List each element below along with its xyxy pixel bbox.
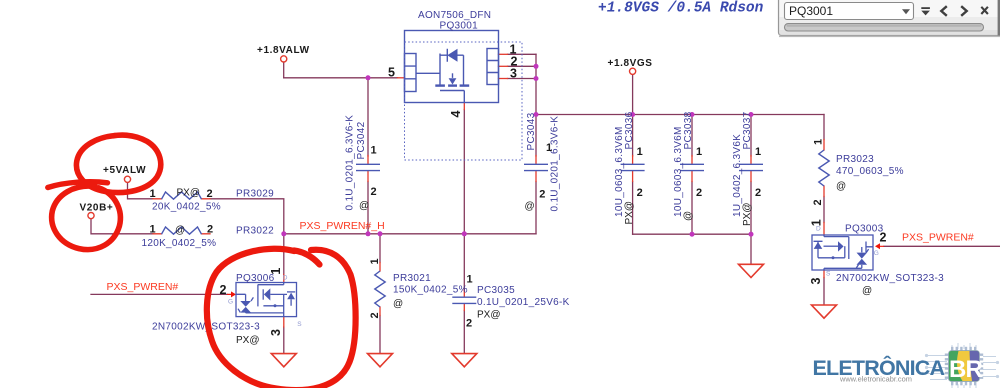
svg-text:10U_0603_6.3V6M: 10U_0603_6.3V6M (673, 126, 684, 217)
svg-text:2: 2 (696, 187, 702, 199)
wire pin2 horizontal (508, 65, 537, 67)
PR3022 pin stubs (153, 233, 210, 235)
ground PC3035 (452, 354, 477, 367)
svg-text:2: 2 (207, 188, 213, 200)
svg-text:2: 2 (812, 199, 824, 205)
PR3021 pin stubs (379, 263, 381, 316)
svg-text:www.eletronicabr.com: www.eletronicabr.com (839, 375, 912, 384)
svg-text:1: 1 (637, 146, 643, 158)
junction PWREN_H left (281, 231, 286, 236)
svg-text:1: 1 (755, 146, 761, 158)
svg-text:3: 3 (269, 329, 283, 336)
junction pin3 (534, 76, 539, 81)
svg-text:1: 1 (813, 139, 825, 145)
wire PQ3006 drain drop (283, 234, 285, 275)
wire PC3037 top (750, 115, 752, 157)
svg-text:PXS_PWREN#: PXS_PWREN# (107, 281, 179, 293)
svg-text:470_0603_5%: 470_0603_5% (836, 166, 904, 177)
svg-text:PXS_PWREN#_H: PXS_PWREN#_H (300, 220, 385, 232)
ground PR3021 (368, 354, 393, 367)
svg-text:+1.8VGS: +1.8VGS (608, 58, 653, 69)
svg-text:@: @ (359, 201, 369, 212)
PQ3003 pin3 stub (823, 270, 825, 278)
wire caps ground bus (633, 233, 751, 235)
mosfet U PQ3001 body (405, 31, 499, 103)
svg-text:0.1U_0201_25V6-K: 0.1U_0201_25V6-K (477, 297, 570, 308)
svg-text:PC3037: PC3037 (742, 111, 753, 149)
svg-text:+1.8VALW: +1.8VALW (257, 45, 310, 56)
junction PC3042 top (366, 75, 371, 80)
svg-text:2: 2 (755, 187, 761, 199)
wire PC3038 bottom (691, 182, 693, 235)
capacitor PC3037 plates (739, 164, 763, 170)
svg-text:PC3038: PC3038 (683, 111, 694, 149)
pin1 stub (499, 53, 508, 55)
capacitor PC3043 plates (524, 164, 548, 170)
capacitor PC3035 plates (452, 297, 476, 303)
wire pin1 horizontal (508, 53, 537, 55)
PC3043 pin stubs (535, 156, 537, 182)
ground caps (739, 264, 764, 277)
find close button (981, 7, 988, 14)
PC3038 pin stubs (691, 156, 693, 182)
wire PC3036 bottom (632, 182, 634, 235)
junction PC3037 bottom (749, 232, 754, 237)
pin3 stub (499, 78, 508, 80)
pin5 stub (398, 77, 405, 79)
junction PC3042 bottom (366, 231, 371, 236)
wire pin4 vertical (463, 110, 465, 234)
svg-text:20K_0402_5%: 20K_0402_5% (152, 202, 221, 213)
wire PC3042 bottom (367, 182, 369, 234)
svg-text:G: G (228, 298, 233, 305)
svg-text:3: 3 (510, 67, 517, 81)
wire ground stem caps (750, 234, 752, 263)
annotation circle +5VALW (76, 135, 160, 192)
svg-text:PC3035: PC3035 (477, 285, 515, 296)
PC3036 pin stubs (632, 156, 634, 182)
svg-text:PX@: PX@ (477, 309, 501, 320)
svg-text:2: 2 (880, 231, 887, 245)
svg-text:2: 2 (539, 189, 545, 201)
svg-text:PQ3001: PQ3001 (440, 21, 479, 32)
annotation circle V20B+ (48, 182, 108, 188)
transistor Q PQ3003 (812, 235, 873, 270)
svg-text:1: 1 (269, 268, 283, 275)
svg-text:PR3021: PR3021 (393, 273, 431, 284)
svg-text:PR3029: PR3029 (236, 189, 274, 200)
svg-text:+5VALW: +5VALW (103, 165, 146, 176)
wire PC3043 bottom (535, 182, 537, 234)
svg-text:2: 2 (637, 187, 643, 199)
resistor PR3022 (162, 227, 202, 234)
svg-text:@: @ (393, 299, 403, 310)
wire PR3023 to PQ3003 (823, 197, 825, 223)
svg-text:2: 2 (220, 283, 227, 297)
wire +1.8VGS bus (536, 114, 824, 116)
resistor PR3021 (375, 271, 385, 307)
svg-text:AON7506_DFN: AON7506_DFN (418, 10, 491, 21)
svg-text:120K_0402_5%: 120K_0402_5% (142, 238, 217, 249)
svg-text:PX@: PX@ (624, 201, 635, 225)
power pin V20B+ (88, 213, 94, 219)
PC3035 pin stubs (463, 290, 465, 310)
svg-text:BR: BR (949, 356, 983, 383)
annotation circle PQ3006 (207, 249, 356, 388)
find option button (921, 7, 930, 15)
power pin +1.8VGS (630, 68, 636, 74)
PQ3001 selection dashed box (405, 42, 523, 160)
svg-text:1: 1 (150, 224, 156, 236)
wire PC3038 top (691, 115, 693, 157)
junction PC3038 top (690, 112, 695, 117)
svg-text:5: 5 (388, 66, 395, 80)
svg-text:2N7002KW_SOT323-3: 2N7002KW_SOT323-3 (836, 273, 944, 284)
transistor Q PQ3006 (236, 283, 297, 317)
find toolbar (779, 0, 1000, 37)
svg-text:1: 1 (369, 258, 381, 264)
svg-text:PC3043: PC3043 (526, 112, 537, 150)
wire PC3042 top drop (367, 78, 369, 156)
svg-text:PC3042: PC3042 (356, 121, 367, 159)
wire pins vertical to PC3043 (535, 54, 537, 156)
svg-text:+1.8VGS /0.5A Rdson: +1.8VGS /0.5A Rdson (598, 1, 764, 17)
svg-text:@: @ (525, 201, 535, 212)
pin2 stub (499, 65, 508, 67)
svg-text:0.1U_0201_6.3V6-K: 0.1U_0201_6.3V6-K (345, 115, 356, 211)
ground PQ3006 (271, 354, 296, 367)
svg-text:PX@: PX@ (742, 203, 753, 227)
wire PC3037 bottom (750, 182, 752, 235)
wire +5VALW drop (128, 183, 154, 199)
junction PC3037 top (749, 112, 754, 117)
wire pin3 horizontal (508, 78, 537, 80)
svg-text:G: G (874, 250, 879, 257)
annotation tail PQ3006 (294, 251, 320, 265)
PC3042 pin stubs (367, 156, 369, 182)
svg-text:V20B+: V20B+ (80, 203, 114, 214)
svg-text:2: 2 (207, 224, 213, 236)
PC3037 pin stubs (750, 156, 752, 182)
svg-text:@: @ (862, 286, 872, 297)
junction PC3038 bottom (690, 232, 695, 237)
junction pin2 (534, 64, 539, 69)
svg-text:PR3022: PR3022 (236, 226, 274, 237)
svg-text:PX@: PX@ (177, 188, 201, 199)
svg-text:@: @ (175, 225, 185, 236)
power pin +1.8VALW (281, 56, 287, 62)
find combobox (785, 3, 914, 20)
svg-text:1: 1 (371, 145, 377, 157)
find next button (961, 6, 967, 16)
svg-text:2: 2 (369, 312, 381, 318)
svg-text:D: D (816, 226, 821, 233)
capacitor PC3042 plates (356, 164, 380, 170)
svg-text:3: 3 (809, 278, 823, 285)
wire PXS_PWREN#_H bus (284, 233, 536, 235)
wire PR3021 to ground (379, 316, 381, 353)
find prev button (941, 6, 947, 16)
svg-text:1: 1 (546, 142, 552, 154)
svg-text:1: 1 (467, 273, 473, 285)
wire V20B+ drop (91, 219, 153, 234)
annotation circle V20B+ body (52, 186, 121, 250)
pin4 stub (463, 103, 465, 110)
junction bus left (534, 112, 539, 117)
PR3023 pin stubs (823, 140, 825, 197)
svg-text:S: S (826, 271, 831, 278)
wire PR3029 to corner (210, 199, 284, 234)
resistor PR3023 (819, 150, 829, 186)
svg-text:1: 1 (696, 146, 702, 158)
svg-text:S: S (297, 321, 302, 328)
PQ3003 pin1 stub (823, 223, 825, 236)
svg-text:D: D (283, 274, 288, 281)
svg-text:PR3023: PR3023 (836, 154, 874, 165)
wire PXS_PWREN# right (884, 245, 1000, 247)
junction pin4 bus (462, 231, 467, 236)
PQ3006 pin1 stub (283, 275, 285, 283)
logo circuit traces (924, 343, 998, 388)
capacitor PC3036 plates (621, 164, 645, 170)
svg-text:PX@: PX@ (236, 335, 260, 346)
wire PC3035 to ground (463, 311, 465, 353)
PQ3003 gate stub arrow (875, 243, 884, 249)
resistor PR3029 (162, 192, 202, 199)
PQ3006 gate stub arrow (227, 291, 236, 297)
logo chip body (949, 351, 980, 382)
wire +1.8VALW vertical (283, 62, 285, 78)
svg-text:PXS_PWREN#: PXS_PWREN# (902, 231, 974, 243)
svg-text:150K_0402_5%: 150K_0402_5% (393, 285, 468, 296)
junction PR3021 top (378, 231, 383, 236)
capacitor PC3038 plates (680, 164, 704, 170)
svg-text:1: 1 (150, 188, 156, 200)
wire +1.8VALW to pin5 (284, 77, 398, 79)
svg-text:PQ3003: PQ3003 (845, 224, 884, 235)
find progress bar (785, 24, 984, 31)
power pin +5VALW (124, 176, 130, 182)
wire PC3036 top (632, 115, 634, 157)
svg-text:0.1U_0201_6.3V6-K: 0.1U_0201_6.3V6-K (549, 116, 560, 212)
wire PR3023 top (823, 115, 825, 140)
PR3029 pin stubs (153, 198, 210, 200)
wire PQ3006 source to ground (283, 327, 285, 353)
wire +1.8VGS power drop (632, 75, 634, 115)
wire PR3021 top (379, 234, 381, 263)
svg-text:4: 4 (449, 111, 463, 118)
svg-text:@: @ (836, 181, 846, 192)
wire pin4 to PC3035 (463, 234, 465, 290)
ground PQ3003 (812, 305, 837, 318)
svg-text:2: 2 (466, 317, 472, 329)
svg-text:@: @ (683, 211, 694, 221)
junction +1.8VGS/PC3036 (630, 112, 635, 117)
wire PXS_PWREN# left (91, 293, 227, 295)
wire PQ3003 source to ground (823, 278, 825, 305)
svg-text:PQ3001: PQ3001 (789, 4, 833, 18)
logo chip pins (945, 347, 983, 386)
PQ3006 pin3 stub (283, 317, 285, 327)
svg-text:2: 2 (371, 186, 377, 198)
svg-text:PC3036: PC3036 (624, 111, 635, 149)
